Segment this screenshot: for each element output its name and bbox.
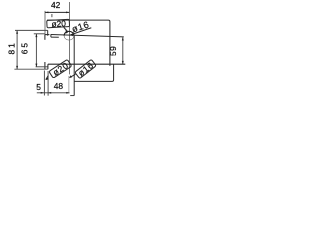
extension line 81 bottom / part bottom edge y=69.5 — [14, 68, 48, 70]
leader Ø16 top — [70, 28, 91, 35]
extension line 42-right / centerline x=69.4 — [68, 2, 70, 74]
part main top edge sloped — [51, 35, 124, 37]
arrowhead dim48 right — [66, 92, 69, 94]
arrowhead dim5 left — [41, 92, 44, 94]
svg-text:81: 81 — [6, 41, 16, 54]
arrowhead dim5 right — [48, 92, 51, 94]
arrowhead 42 left — [45, 12, 48, 14]
label box Ø16 diagonal — [75, 59, 96, 78]
part left edge lower dark segment — [44, 62, 46, 69]
arrowhead leader Ø16 top — [70, 33, 73, 36]
svg-text:48: 48 — [54, 81, 64, 91]
arrowhead leader Ø20 diagonal — [46, 77, 49, 80]
centerline stub above box x=51.9 — [51, 14, 53, 17]
circle lower arc faint — [64, 36, 74, 40]
dimension line 42 y=12.4 — [45, 11, 69, 13]
extension line 65 top y=34.1 — [34, 33, 45, 35]
part bottom step vertical x=47.9 — [47, 64, 49, 69]
svg-text:42: 42 — [51, 0, 61, 10]
svg-text:ø20: ø20 — [51, 18, 66, 29]
extension line 81 top y=30.2 — [15, 29, 48, 31]
arrowhead 65 bottom — [35, 64, 37, 67]
part top long line y=20.1 with rounded corner to right edge — [47, 20, 110, 66]
part lower-right panel edge with rounded corner — [74, 64, 113, 81]
extension line bottom dim x=48.1 — [47, 71, 49, 96]
part notch vertical x=50.9 — [50, 34, 52, 37]
arrowhead leader Ø16 diagonal — [69, 75, 72, 78]
arrowhead 81 bottom — [16, 66, 18, 69]
leader Ø20 diagonal — [46, 76, 48, 80]
part step vertical x=47.7 — [47, 30, 49, 35]
dimension line 65 x=37.1 — [35, 34, 37, 67]
leader Ø20 top — [64, 27, 68, 32]
svg-text:5: 5 — [36, 82, 41, 92]
arrowhead 81 top — [16, 30, 18, 33]
dimension line 59 x=122.3 — [122, 37, 124, 64]
extension line bottom-left x=44.3 — [43, 71, 45, 96]
part edge top-left y=34.6 — [45, 34, 50, 36]
part left edge upper dark segment — [44, 35, 46, 40]
part main bottom edge y=64.2 — [48, 63, 125, 65]
circle boss Ø20/Ø16 — [64, 31, 74, 35]
label box Ø20 diagonal — [49, 59, 72, 78]
svg-text:65: 65 — [19, 41, 29, 54]
bottom tick at boss edge end — [70, 95, 74, 97]
part notch lower edge y=37.1 — [51, 36, 59, 38]
background — [0, 0, 128, 100]
arrowhead 59 top — [122, 37, 124, 40]
part boss right edge x=74.2 — [73, 36, 75, 96]
extension line 65 bottom y=66.9 — [36, 66, 48, 68]
arrowhead 59 bottom — [122, 61, 124, 64]
arrowhead 42 right — [66, 12, 69, 14]
label box Ø20 top — [47, 19, 70, 27]
bottom dimension line y=92.8 — [37, 92, 70, 94]
leader Ø16 diagonal — [70, 74, 76, 77]
extension line 48-right x=68.9 — [68, 76, 70, 94]
dimension line 81 x=17.4 — [16, 30, 18, 69]
arrowhead 65 top — [35, 34, 37, 37]
arrowhead leader Ø20 top — [65, 30, 68, 33]
extension line 42-left / part left edge x=45 — [44, 11, 46, 35]
svg-text:59: 59 — [108, 46, 118, 56]
